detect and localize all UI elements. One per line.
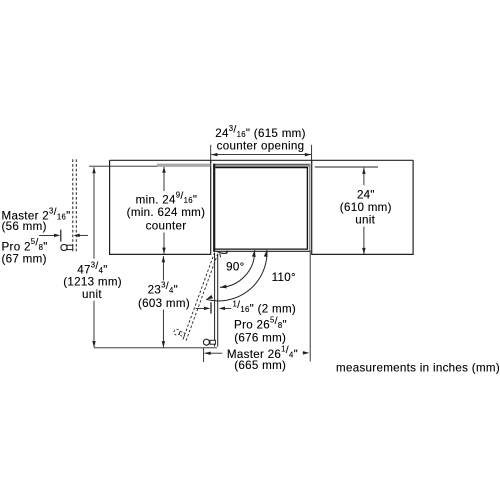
one16 dim right line [225, 307, 232, 309]
wall dashed line 2 [75, 159, 77, 253]
right counter box [312, 160, 413, 254]
arc 110 [206, 250, 267, 301]
svg-text:90°: 90° [226, 260, 244, 273]
arrowheads: min counter dim [162, 167, 166, 173]
svg-text:(67 mm): (67 mm) [2, 253, 47, 266]
master dim right line [303, 352, 306, 354]
arrowheads: one16 dim [204, 307, 210, 311]
door handle circle [203, 339, 209, 345]
arrowheads: dim counter opening [211, 153, 217, 157]
svg-text:(665 mm): (665 mm) [234, 359, 286, 372]
handle dim right line [79, 234, 88, 236]
unit top inner line [215, 167, 307, 169]
arc 90 [220, 250, 255, 287]
svg-text:counter opening: counter opening [217, 140, 305, 153]
arrowheads: master dim [204, 351, 210, 355]
47 dim line bottom segment [93, 301, 95, 348]
svg-text:(676 mm): (676 mm) [234, 332, 286, 345]
left counter box [110, 160, 211, 254]
svg-text:(1213 mm): (1213 mm) [63, 276, 122, 289]
min counter dim line bottom segment [163, 233, 165, 254]
master dim left tick [203, 348, 205, 362]
door handle stem [210, 340, 215, 344]
handle detail circle [61, 244, 67, 250]
svg-text:(min. 624 mm): (min. 624 mm) [127, 206, 206, 219]
counter opening dim line [211, 154, 311, 156]
unit 24 dim line top segment [363, 168, 365, 186]
svg-text:110°: 110° [272, 271, 296, 284]
dashed door group [172, 249, 217, 341]
gray countertop band left [157, 164, 211, 167]
handle detail stem [67, 245, 73, 249]
unit right inner line [306, 167, 308, 250]
svg-text:counter: counter [146, 220, 187, 233]
door hinge vertical nib [219, 254, 222, 258]
counter opening dim left tick [210, 145, 212, 163]
unit gray top band [213, 165, 310, 167]
svg-text:unit: unit [82, 288, 102, 301]
svg-text:24": 24" [357, 189, 375, 202]
arrowheads: handle dim [54, 234, 60, 238]
arrowheads: 47 dim [92, 167, 96, 173]
arrowheads: unit 24 dim [362, 168, 366, 174]
min counter dim line top segment [163, 167, 165, 191]
unit bottom inner line [215, 248, 308, 250]
svg-text:measurements in inches (mm): measurements in inches (mm) [336, 362, 500, 375]
arrowheads: arc 90 [252, 250, 257, 257]
unit bottom outer line [213, 250, 310, 252]
door hinge curve [217, 251, 227, 253]
svg-text:(610 mm): (610 mm) [340, 201, 392, 214]
countertop edge line right [315, 166, 378, 168]
door open 90 back line [217, 254, 219, 347]
door open 90 front line [214, 253, 216, 347]
unit right extension line [309, 251, 311, 362]
unit top outer line [213, 163, 310, 165]
23 dim line bottom segment [162, 310, 164, 348]
countertop edge line left [89, 165, 211, 167]
svg-text:(56 mm): (56 mm) [2, 220, 47, 233]
unit right outer line [309, 164, 311, 251]
bottom extension line [94, 347, 217, 349]
23 dim line top segment [162, 256, 164, 281]
back wall line [110, 159, 414, 161]
door hinge flag [225, 250, 229, 254]
master dim left line [204, 352, 222, 354]
unit left edge [213, 164, 215, 251]
one16 dim left line [196, 307, 205, 309]
counter opening dim right tick [311, 145, 313, 163]
arrowheads: arc 110 [264, 250, 269, 257]
handle dim tick [60, 230, 62, 242]
wall dashed line 1 [72, 159, 74, 253]
47 dim line top segment [93, 167, 95, 258]
svg-text:(603 mm): (603 mm) [138, 297, 190, 310]
arrowheads: 23 dim [162, 256, 166, 262]
svg-text:unit: unit [355, 214, 375, 227]
one16 dim tick [210, 302, 212, 313]
unit 24 dim line bottom segment [363, 227, 365, 255]
handle dim left line [39, 234, 55, 236]
